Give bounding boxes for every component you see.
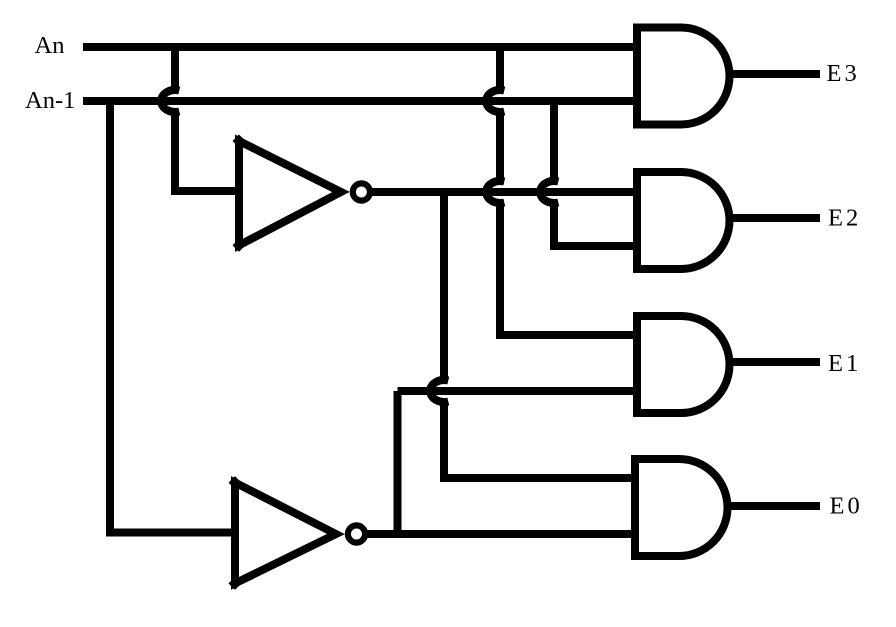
svg-text:E3: E3	[827, 60, 860, 87]
svg-text:E2: E2	[828, 205, 861, 232]
svg-text:E1: E1	[828, 350, 861, 377]
svg-text:An: An	[35, 32, 65, 59]
svg-text:An-1: An-1	[25, 87, 75, 114]
svg-text:E0: E0	[830, 493, 863, 520]
